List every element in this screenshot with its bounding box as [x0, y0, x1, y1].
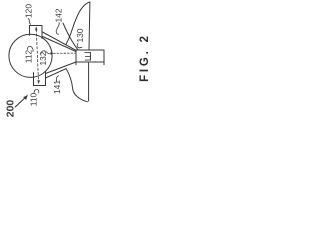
top port rectangle 120 — [30, 26, 43, 39]
bottom stub 110 — [34, 71, 46, 86]
leader squiggle 120 — [28, 19, 30, 25]
dome circle (bulb body) — [9, 34, 52, 77]
upper fin vertical edge (rim line) — [88, 2, 91, 50]
leader squiggle 132 — [41, 51, 50, 54]
leader squiggle 142 — [56, 23, 59, 35]
dashed axis line — [36, 30, 38, 82]
upper fin outer curve F1 — [66, 2, 90, 44]
dashed line from dot to box — [54, 52, 77, 54]
upper bell inner curve F2 — [63, 23, 78, 50]
leader squiggle 141 — [56, 76, 58, 82]
svg-text:FIG. 2: FIG. 2 — [139, 33, 151, 82]
node dot 132 axis point — [50, 52, 53, 55]
lower fin outer curve F4 — [66, 69, 88, 102]
axis arrow down — [37, 80, 40, 84]
leader squiggle 130 — [77, 44, 82, 48]
svg-text:112: 112 — [24, 49, 34, 63]
upper funnel outer line L1 — [43, 32, 77, 50]
svg-text:E: E — [84, 49, 92, 63]
svg-text:142: 142 — [54, 8, 64, 22]
E box — [76, 50, 104, 62]
lower funnel line L4 — [46, 69, 67, 78]
E box bottom corner ticks — [76, 62, 104, 65]
leader squiggle 110 — [34, 90, 39, 93]
upper funnel inner line L2 — [43, 37, 77, 52]
svg-text:120: 120 — [24, 4, 34, 18]
lower fin vertical edge (rim line) — [88, 63, 90, 101]
lower funnel line L3 — [46, 62, 77, 74]
svg-text:200: 200 — [5, 100, 17, 118]
axis arrow up — [35, 26, 38, 30]
leader squiggle 112 — [28, 46, 34, 51]
svg-text:132: 132 — [38, 51, 48, 65]
svg-text:130: 130 — [75, 28, 85, 42]
svg-text:141: 141 — [52, 80, 62, 94]
svg-text:110: 110 — [29, 92, 39, 106]
200 arrow — [15, 98, 25, 107]
